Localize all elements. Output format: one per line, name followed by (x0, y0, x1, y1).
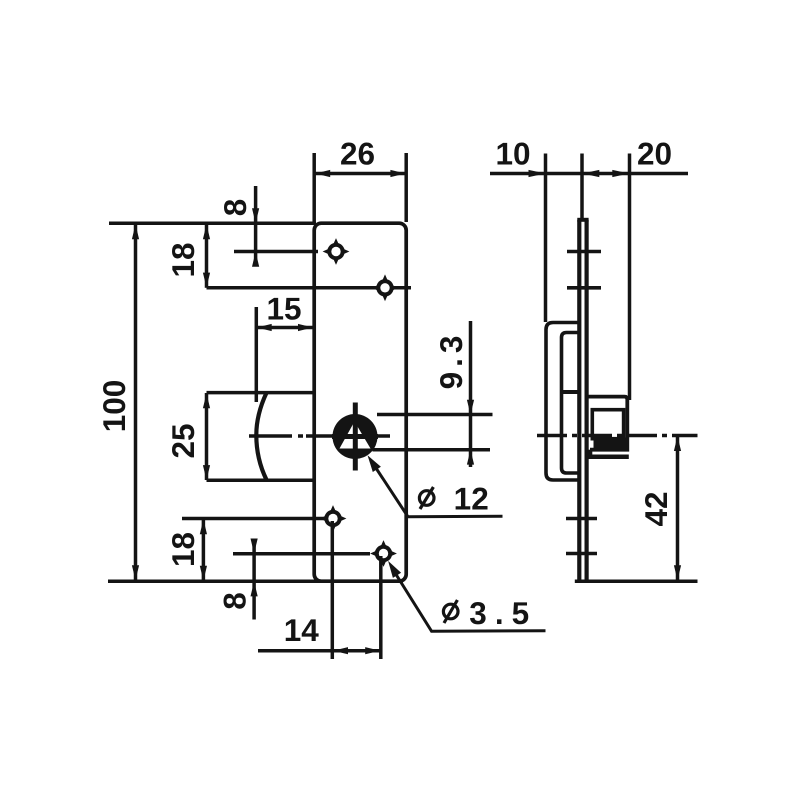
svg-text:18: 18 (165, 242, 201, 277)
svg-text:3.5: 3.5 (469, 595, 537, 631)
svg-text:10: 10 (495, 136, 530, 172)
svg-text:20: 20 (637, 136, 672, 172)
svg-text:18: 18 (165, 532, 201, 567)
svg-text:12: 12 (454, 481, 489, 517)
svg-text:8: 8 (217, 592, 253, 610)
svg-text:9.3: 9.3 (433, 331, 469, 390)
svg-text:15: 15 (266, 291, 301, 327)
svg-text:42: 42 (638, 491, 674, 526)
svg-text:25: 25 (165, 423, 201, 458)
svg-text:8: 8 (217, 199, 253, 217)
svg-text:26: 26 (340, 136, 375, 172)
svg-text:100: 100 (96, 380, 132, 433)
svg-text:14: 14 (284, 612, 320, 648)
